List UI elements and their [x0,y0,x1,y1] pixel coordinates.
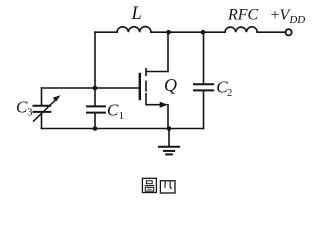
wire gate lead [95,87,140,89]
wire drain to top rail [167,32,169,71]
wire top rail right segment [257,31,285,33]
capacitor C1 [94,88,96,105]
node dot top rail drain [166,30,171,35]
svg-text:1: 1 [119,111,124,122]
svg-text:C: C [107,101,119,120]
svg-text:RFC: RFC [227,7,259,24]
node dot top rail C2 [201,30,206,35]
C3 variable arrow [34,100,56,121]
node dot bottom C1 [93,126,98,131]
svg-text:3: 3 [27,107,32,118]
glyph 四 [160,181,175,193]
ground [168,129,170,147]
caption 圖四 [142,178,175,193]
glyph 圖 [142,178,156,192]
svg-text:L: L [131,4,142,24]
terminal +VDD [286,29,292,35]
node dot bottom ground [167,126,172,131]
svg-text:+VDD: +VDD [271,7,306,26]
wire left vertical from top rail to gate node [94,32,96,88]
capacitor C2 [203,32,205,83]
wire bottom rail [42,128,204,130]
inductor L [117,27,151,33]
wire source to bottom rail [167,105,169,129]
svg-text:2: 2 [227,88,232,99]
svg-text:Q: Q [164,75,177,95]
node dot gate [93,86,98,91]
svg-text:C: C [16,97,28,116]
wire C3 loop top edge [42,87,96,89]
wire top rail middle segment [151,31,225,33]
inductor RFC [225,27,257,32]
capacitor C3 (variable) [41,88,43,105]
transistor Q [139,74,141,99]
wire top rail left segment [95,31,117,33]
